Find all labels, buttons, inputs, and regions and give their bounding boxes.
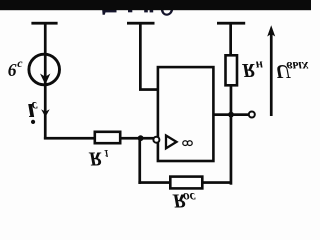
svg-text:вых: вых: [287, 59, 309, 74]
svg-text:ос: ос: [183, 190, 196, 205]
svg-text:R: R: [88, 147, 102, 169]
svg-text:R: R: [241, 59, 255, 81]
svg-text:c: c: [17, 56, 23, 70]
svg-text:1: 1: [104, 147, 109, 158]
svg-text:6: 6: [8, 60, 17, 80]
svg-text:с: с: [32, 99, 38, 114]
svg-text:н: н: [256, 59, 263, 74]
